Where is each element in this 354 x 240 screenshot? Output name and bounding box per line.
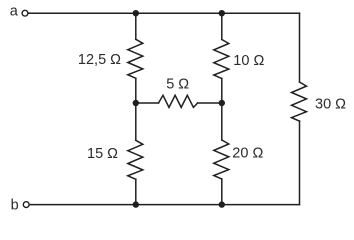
resistor R 20 ohm: [214, 140, 229, 179]
svg-text:12,5 Ω: 12,5 Ω: [78, 52, 121, 68]
terminal a: [22, 10, 28, 16]
resistor R 5 ohm: [159, 95, 198, 107]
junction node bottom-left: [133, 201, 139, 207]
wire right branch bottom stub: [299, 121, 301, 205]
svg-text:a: a: [10, 4, 19, 20]
wire top from a: [28, 12, 299, 14]
svg-text:30 Ω: 30 Ω: [315, 96, 346, 112]
junction node mid-left: [133, 100, 139, 106]
resistor R 30 ohm: [292, 82, 307, 121]
junction node bottom-right: [219, 201, 225, 207]
wire left mid branch middle upper stub: [135, 78, 137, 103]
svg-text:10 Ω: 10 Ω: [233, 53, 264, 69]
wire left mid branch bottom stub: [135, 179, 137, 204]
svg-text:20 Ω: 20 Ω: [232, 146, 263, 162]
wire left mid branch top stub: [135, 13, 137, 39]
wire right mid branch middle upper stub: [221, 79, 223, 104]
wire left mid branch middle lower stub: [135, 103, 137, 140]
wire right mid branch middle lower stub: [221, 103, 223, 140]
resistor R 12,5 ohm: [128, 39, 143, 78]
junction node top-left: [133, 10, 139, 16]
wire right mid branch top stub: [221, 13, 223, 39]
wire right branch top stub: [299, 13, 301, 82]
junction node top-right: [219, 10, 225, 16]
junction node mid-right: [219, 100, 225, 106]
resistor R 10 ohm: [214, 40, 229, 79]
wire right mid branch bottom stub: [221, 179, 223, 205]
terminal b: [23, 202, 29, 208]
wire middle horizontal right segment: [198, 102, 222, 104]
wire middle horizontal left segment: [136, 102, 159, 104]
svg-text:b: b: [11, 198, 19, 214]
svg-text:5 Ω: 5 Ω: [166, 77, 189, 93]
resistor R 15 ohm: [128, 140, 143, 179]
svg-text:15 Ω: 15 Ω: [87, 146, 118, 162]
wire bottom from b: [30, 204, 300, 206]
